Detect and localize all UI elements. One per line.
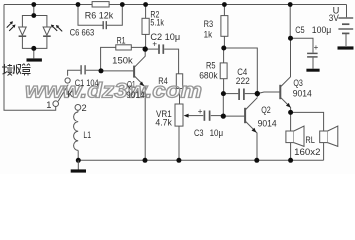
- node rail/Q1 emitter: [143, 158, 148, 163]
- transistor Q3: [257, 38, 290, 112]
- svg-text:1k: 1k: [204, 29, 213, 39]
- svg-text:C3: C3: [194, 128, 204, 138]
- wire R3 node to Q2 collector column: [224, 48, 257, 97]
- wire R5/C4 node down to C3/Q2 node: [222, 94, 224, 117]
- resistor R1 with leads: [101, 45, 146, 71]
- svg-text:R4: R4: [158, 76, 168, 86]
- node rail/speaker left: [288, 158, 293, 163]
- node rail/R3: [222, 2, 227, 7]
- switch K blade: [58, 85, 68, 102]
- svg-text:150k: 150k: [112, 55, 133, 65]
- resistor R2 with leads: [142, 5, 149, 50]
- svg-text:+: +: [152, 40, 157, 49]
- svg-text:Q1: Q1: [127, 80, 136, 90]
- svg-text:L1: L1: [83, 130, 91, 140]
- svg-text:222: 222: [236, 76, 250, 86]
- svg-text:Q2: Q2: [261, 105, 271, 115]
- photodiode D-right: [43, 27, 51, 36]
- transistor Q1: [101, 49, 145, 160]
- label 接收管: [2, 64, 31, 76]
- ground battery: [338, 46, 354, 49]
- node rail/Q3 column: [288, 2, 293, 7]
- wire bottom ground rail: [78, 159, 323, 161]
- capacitor C6 loop: [78, 5, 122, 30]
- node photodiode bottom: [31, 46, 36, 51]
- wire C2 elbow to resistor R4 is above; resistor R4: [176, 74, 182, 104]
- svg-text:9014: 9014: [126, 90, 145, 100]
- battery U plates: [338, 18, 353, 46]
- node rail/R2: [143, 2, 148, 7]
- svg-text:+: +: [314, 43, 319, 52]
- svg-text:9014: 9014: [258, 119, 277, 129]
- svg-text:C1 104: C1 104: [75, 78, 99, 88]
- svg-text:3V: 3V: [329, 13, 340, 23]
- speaker RL left: [286, 126, 304, 146]
- svg-text:www.dz3w.com: www.dz3w.com: [25, 79, 202, 103]
- svg-text:R5: R5: [206, 61, 216, 71]
- svg-text:K: K: [67, 89, 73, 99]
- svg-text:+: +: [198, 107, 203, 116]
- node R5/C4: [221, 91, 226, 96]
- capacitor C3: [188, 111, 223, 121]
- svg-text:RL: RL: [305, 135, 315, 145]
- inductor L1: [74, 110, 79, 160]
- node rail/Q2 emitter: [254, 158, 259, 163]
- svg-text:C5: C5: [295, 25, 305, 35]
- photodiode D-left: [19, 27, 27, 36]
- node C4/Q3 base/Q2 collector: [255, 91, 260, 96]
- wire photodiode stem from rail: [33, 5, 35, 16]
- svg-text:680k: 680k: [199, 70, 218, 80]
- terminal 2 circle: [75, 105, 81, 111]
- node rail/photodiodes: [31, 2, 36, 7]
- svg-text:2: 2: [82, 103, 87, 113]
- wire photodiode bottom bracket: [22, 37, 47, 48]
- wire top supply rail: [4, 4, 347, 6]
- svg-text:R6 12k: R6 12k: [85, 10, 114, 20]
- wire left frame to terminal 1: [4, 5, 56, 111]
- svg-text:R3: R3: [204, 19, 214, 29]
- potentiometer VR1: [175, 104, 189, 126]
- svg-text:C6 663: C6 663: [70, 27, 95, 37]
- node rail/VR1: [176, 158, 181, 163]
- ground C5: [306, 69, 319, 72]
- light arrows left: [7, 21, 16, 31]
- resistor R3 with leads: [221, 5, 228, 49]
- ground photodiodes bar: [27, 58, 42, 61]
- capacitor C2: [145, 44, 178, 73]
- svg-text:160x2: 160x2: [294, 147, 320, 157]
- svg-text:100μ: 100μ: [312, 25, 332, 35]
- ground main rail under L1: [71, 160, 86, 171]
- node rail/C6 right: [120, 2, 125, 7]
- svg-text:10μ: 10μ: [210, 128, 224, 138]
- svg-text:1: 1: [46, 100, 51, 110]
- light arrows right: [51, 25, 62, 32]
- node rail/C6 left: [76, 2, 81, 7]
- capacitor C1: [68, 65, 101, 76]
- capacitor C4: [224, 89, 258, 101]
- node rail/L1: [76, 158, 81, 163]
- node C5/Q3 collector: [288, 36, 293, 41]
- resistor R6: [92, 2, 109, 7]
- node Q1 collector/R1/R2/C2: [143, 46, 148, 51]
- terminal 1 circle: [53, 101, 59, 107]
- svg-text:4.7k: 4.7k: [155, 118, 172, 128]
- transistor Q2: [223, 98, 257, 161]
- switch K contact circle: [65, 78, 70, 83]
- svg-text:5.1k: 5.1k: [150, 18, 164, 28]
- resistor R5 with leads: [220, 48, 227, 94]
- battery U wire from rail corner: [346, 5, 348, 18]
- node photodiode bracket: [31, 13, 36, 18]
- wire photodiode top bracket: [22, 16, 47, 28]
- capacitor C5: [291, 38, 318, 68]
- svg-text:9014: 9014: [293, 88, 312, 98]
- wire photodiode ground stem: [33, 48, 35, 58]
- node R3/R5/Q2 collector wire: [221, 46, 226, 51]
- node Q3 emitter/speakers: [288, 110, 293, 115]
- node C1/R1/Q1 base: [99, 68, 104, 73]
- wire VR1 bottom to ground rail: [178, 126, 180, 160]
- svg-text:Q3: Q3: [293, 78, 303, 88]
- svg-text:R1: R1: [117, 35, 126, 45]
- wire top rail to Q3 collector/C5: [289, 5, 291, 39]
- wire speaker loop top: [291, 112, 324, 160]
- node C3/Q2 base: [221, 114, 226, 119]
- speaker RL right: [320, 126, 338, 146]
